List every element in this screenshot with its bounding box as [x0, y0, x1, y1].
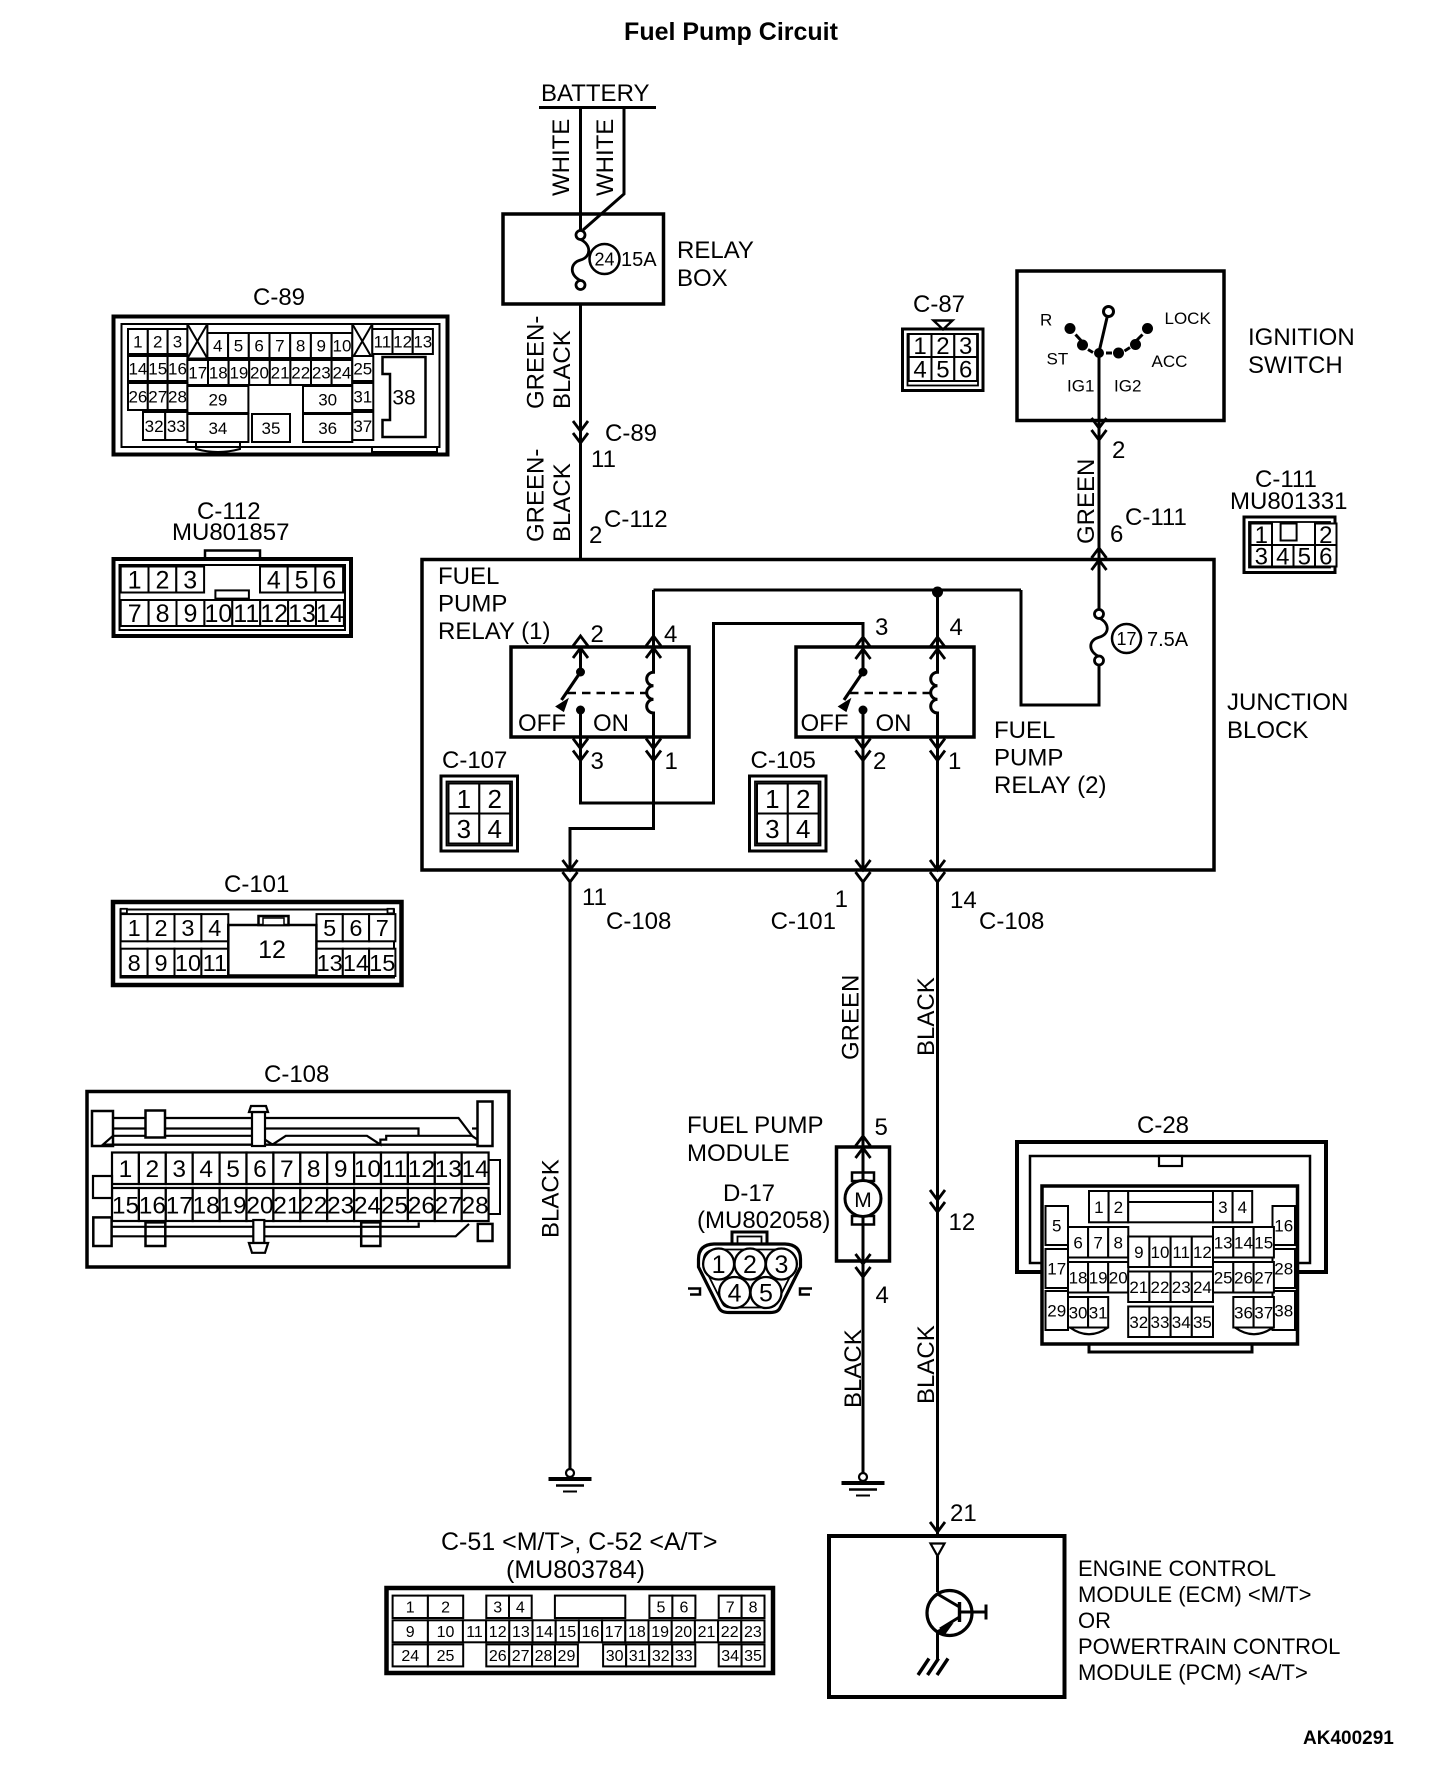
- svg-text:6: 6: [254, 337, 263, 356]
- svg-text:C-107: C-107: [442, 747, 507, 774]
- svg-text:4: 4: [213, 337, 222, 356]
- svg-text:MU801331: MU801331: [1230, 488, 1347, 515]
- svg-text:13: 13: [512, 1624, 530, 1641]
- svg-text:10: 10: [1151, 1243, 1170, 1262]
- svg-text:18: 18: [1069, 1268, 1088, 1287]
- svg-text:21: 21: [698, 1624, 716, 1641]
- svg-text:(MU802058): (MU802058): [697, 1207, 830, 1234]
- svg-text:12: 12: [949, 1209, 976, 1236]
- svg-text:BLACK: BLACK: [913, 977, 940, 1056]
- svg-text:1: 1: [133, 333, 142, 352]
- svg-text:1: 1: [712, 1251, 726, 1279]
- svg-text:1: 1: [128, 915, 141, 941]
- svg-text:31: 31: [1089, 1303, 1108, 1322]
- svg-text:8: 8: [749, 1600, 758, 1617]
- svg-text:2: 2: [155, 915, 168, 941]
- svg-text:C-108: C-108: [979, 908, 1044, 935]
- svg-text:17: 17: [166, 1192, 193, 1219]
- svg-text:5: 5: [234, 337, 243, 356]
- svg-text:22: 22: [721, 1624, 739, 1641]
- svg-text:5: 5: [1052, 1217, 1061, 1236]
- svg-text:34: 34: [1172, 1313, 1191, 1332]
- svg-text:RELAY: RELAY: [677, 237, 754, 264]
- svg-text:32: 32: [1129, 1313, 1148, 1332]
- svg-text:28: 28: [168, 388, 187, 407]
- svg-text:34: 34: [721, 1648, 739, 1665]
- svg-text:14: 14: [128, 360, 147, 379]
- svg-text:7: 7: [128, 600, 142, 628]
- svg-text:11: 11: [233, 600, 259, 628]
- svg-text:22: 22: [291, 364, 310, 383]
- svg-text:16: 16: [168, 360, 187, 379]
- svg-text:2: 2: [796, 784, 810, 814]
- svg-text:27: 27: [435, 1192, 462, 1219]
- svg-text:38: 38: [1274, 1302, 1293, 1321]
- svg-text:38: 38: [392, 387, 415, 410]
- svg-text:11: 11: [203, 950, 227, 976]
- svg-text:IG2: IG2: [1114, 377, 1141, 396]
- svg-text:22: 22: [300, 1192, 327, 1219]
- svg-text:2: 2: [1112, 437, 1125, 464]
- svg-text:7.5A: 7.5A: [1147, 629, 1189, 651]
- svg-text:15A: 15A: [621, 249, 657, 271]
- svg-text:WHITE: WHITE: [548, 119, 575, 196]
- svg-text:12: 12: [489, 1624, 507, 1641]
- svg-text:1: 1: [406, 1600, 415, 1617]
- svg-text:19: 19: [651, 1624, 669, 1641]
- svg-text:FUEL PUMP: FUEL PUMP: [687, 1112, 823, 1139]
- svg-text:Fuel Pump Circuit: Fuel Pump Circuit: [624, 18, 839, 46]
- svg-text:33: 33: [675, 1648, 693, 1665]
- svg-text:4: 4: [516, 1600, 525, 1617]
- svg-text:C-111: C-111: [1125, 504, 1187, 531]
- svg-text:6: 6: [253, 1156, 267, 1183]
- svg-text:C-101: C-101: [224, 871, 289, 898]
- svg-text:35: 35: [1193, 1313, 1212, 1332]
- svg-text:C-89: C-89: [253, 284, 305, 311]
- svg-text:21: 21: [1129, 1278, 1148, 1297]
- svg-text:4: 4: [1238, 1198, 1247, 1217]
- svg-text:C-108: C-108: [606, 908, 671, 935]
- svg-text:2: 2: [487, 784, 501, 814]
- svg-text:4: 4: [1276, 543, 1289, 570]
- svg-text:37: 37: [353, 417, 372, 436]
- svg-text:11: 11: [382, 1156, 407, 1183]
- svg-text:1: 1: [835, 886, 848, 913]
- svg-text:1: 1: [665, 748, 678, 775]
- svg-text:C-105: C-105: [751, 747, 816, 774]
- svg-text:22: 22: [1151, 1278, 1170, 1297]
- svg-text:24: 24: [354, 1192, 381, 1219]
- svg-text:C-89: C-89: [605, 420, 657, 447]
- svg-text:BLACK: BLACK: [840, 1329, 867, 1408]
- svg-text:6: 6: [322, 567, 336, 595]
- svg-text:35: 35: [744, 1648, 762, 1665]
- svg-text:2: 2: [155, 567, 169, 595]
- svg-text:13: 13: [288, 600, 316, 628]
- svg-text:17: 17: [188, 364, 207, 383]
- svg-text:20: 20: [674, 1624, 692, 1641]
- svg-text:4: 4: [208, 915, 221, 941]
- svg-text:25: 25: [381, 1192, 408, 1219]
- svg-text:20: 20: [246, 1192, 273, 1219]
- svg-text:C-87: C-87: [913, 291, 965, 318]
- svg-text:23: 23: [327, 1192, 354, 1219]
- svg-text:23: 23: [312, 364, 331, 383]
- svg-text:2: 2: [873, 748, 886, 775]
- svg-text:OR: OR: [1078, 1608, 1111, 1633]
- svg-text:ENGINE CONTROL: ENGINE CONTROL: [1078, 1556, 1276, 1581]
- svg-text:BLOCK: BLOCK: [1227, 717, 1308, 744]
- svg-text:ST: ST: [1047, 350, 1069, 369]
- svg-text:8: 8: [156, 600, 170, 628]
- svg-text:9: 9: [155, 950, 168, 976]
- svg-text:6: 6: [1110, 521, 1123, 548]
- svg-text:7: 7: [376, 915, 389, 941]
- svg-text:GREEN-: GREEN-: [523, 316, 550, 409]
- svg-text:C-28: C-28: [1137, 1112, 1189, 1139]
- svg-text:29: 29: [208, 391, 227, 410]
- svg-text:13: 13: [317, 950, 343, 976]
- svg-text:2: 2: [591, 621, 604, 648]
- svg-text:GREEN: GREEN: [1073, 459, 1100, 544]
- svg-text:AK400291: AK400291: [1303, 1728, 1394, 1749]
- svg-text:10: 10: [354, 1156, 381, 1183]
- svg-text:9: 9: [1134, 1243, 1143, 1262]
- svg-text:16: 16: [139, 1192, 166, 1219]
- svg-text:4: 4: [796, 814, 810, 844]
- svg-text:20: 20: [250, 364, 269, 383]
- svg-text:4: 4: [267, 567, 281, 595]
- svg-text:27: 27: [512, 1648, 530, 1665]
- svg-text:PUMP: PUMP: [438, 591, 507, 618]
- svg-text:9: 9: [406, 1624, 415, 1641]
- svg-text:34: 34: [208, 419, 227, 438]
- svg-text:17: 17: [605, 1624, 623, 1641]
- svg-text:8: 8: [296, 337, 305, 356]
- svg-text:GREEN-: GREEN-: [523, 449, 550, 542]
- svg-text:FUEL: FUEL: [438, 563, 499, 590]
- svg-text:3: 3: [1255, 543, 1268, 570]
- svg-text:36: 36: [1234, 1303, 1253, 1322]
- svg-text:19: 19: [1089, 1268, 1108, 1287]
- svg-text:30: 30: [1069, 1303, 1088, 1322]
- svg-text:33: 33: [167, 417, 186, 436]
- svg-text:3: 3: [181, 915, 194, 941]
- svg-text:23: 23: [1172, 1278, 1191, 1297]
- svg-text:21: 21: [273, 1192, 300, 1219]
- svg-text:17: 17: [1116, 629, 1136, 649]
- svg-text:16: 16: [582, 1624, 600, 1641]
- svg-text:3: 3: [457, 814, 471, 844]
- svg-text:37: 37: [1254, 1303, 1273, 1322]
- svg-text:15: 15: [558, 1624, 576, 1641]
- svg-text:3: 3: [765, 814, 779, 844]
- svg-text:25: 25: [437, 1648, 455, 1665]
- svg-text:16: 16: [1274, 1217, 1293, 1236]
- svg-text:ON: ON: [593, 710, 629, 737]
- svg-text:3: 3: [173, 333, 182, 352]
- svg-text:36: 36: [318, 419, 337, 438]
- svg-text:15: 15: [1254, 1233, 1273, 1252]
- svg-text:WHITE: WHITE: [592, 119, 619, 196]
- svg-text:24: 24: [1193, 1278, 1212, 1297]
- svg-text:6: 6: [349, 915, 362, 941]
- svg-text:9: 9: [317, 337, 326, 356]
- svg-text:4: 4: [876, 1282, 889, 1309]
- svg-text:BOX: BOX: [677, 265, 728, 292]
- svg-text:ON: ON: [876, 710, 912, 737]
- svg-text:14: 14: [316, 600, 344, 628]
- svg-text:11: 11: [1172, 1243, 1190, 1262]
- svg-text:28: 28: [1274, 1260, 1293, 1279]
- svg-text:FUEL: FUEL: [994, 717, 1055, 744]
- svg-text:18: 18: [193, 1192, 220, 1219]
- svg-text:3: 3: [1218, 1198, 1227, 1217]
- svg-text:29: 29: [558, 1648, 576, 1665]
- svg-text:6: 6: [959, 357, 972, 384]
- svg-text:26: 26: [408, 1192, 435, 1219]
- svg-text:4: 4: [913, 357, 926, 384]
- svg-text:MU801857: MU801857: [172, 519, 289, 546]
- svg-text:14: 14: [343, 950, 369, 976]
- svg-text:28: 28: [535, 1648, 553, 1665]
- svg-text:OFF: OFF: [801, 710, 849, 737]
- svg-text:7: 7: [275, 337, 284, 356]
- svg-text:6: 6: [1073, 1233, 1082, 1252]
- svg-text:1: 1: [457, 784, 471, 814]
- svg-text:MODULE (ECM) <M/T>: MODULE (ECM) <M/T>: [1078, 1582, 1311, 1607]
- svg-text:4: 4: [487, 814, 501, 844]
- svg-text:LOCK: LOCK: [1165, 309, 1212, 328]
- svg-text:RELAY (2): RELAY (2): [994, 772, 1107, 799]
- svg-text:BATTERY: BATTERY: [541, 80, 649, 107]
- svg-text:2: 2: [1114, 1198, 1123, 1217]
- svg-text:18: 18: [628, 1624, 646, 1641]
- svg-text:8: 8: [1114, 1233, 1123, 1252]
- svg-text:11: 11: [582, 884, 607, 911]
- svg-text:25: 25: [1214, 1268, 1233, 1287]
- svg-text:JUNCTION: JUNCTION: [1227, 689, 1348, 716]
- svg-text:4: 4: [728, 1279, 742, 1307]
- svg-text:31: 31: [353, 388, 372, 407]
- svg-text:5: 5: [875, 1114, 888, 1141]
- svg-text:23: 23: [744, 1624, 762, 1641]
- svg-text:D-17: D-17: [723, 1180, 775, 1207]
- svg-text:3: 3: [591, 748, 604, 775]
- svg-text:9: 9: [334, 1156, 348, 1183]
- svg-text:28: 28: [462, 1192, 489, 1219]
- svg-text:M: M: [854, 1189, 872, 1212]
- svg-text:IG1: IG1: [1067, 377, 1094, 396]
- svg-text:5: 5: [656, 1600, 665, 1617]
- svg-text:14: 14: [950, 887, 977, 914]
- svg-text:13: 13: [413, 333, 432, 352]
- svg-text:GREEN: GREEN: [838, 975, 865, 1060]
- svg-text:2: 2: [146, 1156, 160, 1183]
- svg-text:11: 11: [466, 1624, 483, 1641]
- svg-text:C-112: C-112: [604, 506, 668, 533]
- svg-text:1: 1: [765, 784, 779, 814]
- svg-text:8: 8: [128, 950, 141, 976]
- svg-text:21: 21: [271, 364, 290, 383]
- svg-text:13: 13: [435, 1156, 462, 1183]
- svg-text:10: 10: [175, 950, 201, 976]
- svg-text:BLACK: BLACK: [549, 330, 576, 409]
- svg-text:R: R: [1040, 311, 1052, 330]
- svg-text:15: 15: [148, 360, 167, 379]
- svg-text:4: 4: [664, 621, 677, 648]
- svg-text:12: 12: [393, 333, 412, 352]
- svg-text:7: 7: [726, 1600, 735, 1617]
- svg-text:33: 33: [1151, 1313, 1170, 1332]
- svg-text:14: 14: [535, 1624, 553, 1641]
- svg-text:7: 7: [1093, 1233, 1102, 1252]
- svg-text:24: 24: [594, 250, 614, 270]
- svg-text:4: 4: [199, 1156, 213, 1183]
- svg-text:3: 3: [172, 1156, 186, 1183]
- svg-text:30: 30: [318, 391, 337, 410]
- svg-text:24: 24: [401, 1648, 419, 1665]
- svg-text:C-108: C-108: [264, 1061, 329, 1088]
- svg-text:19: 19: [219, 1192, 246, 1219]
- svg-text:12: 12: [1193, 1243, 1212, 1262]
- svg-text:26: 26: [1234, 1268, 1253, 1287]
- svg-text:32: 32: [145, 417, 164, 436]
- svg-text:27: 27: [148, 388, 167, 407]
- svg-text:4: 4: [950, 614, 963, 641]
- svg-text:2: 2: [743, 1251, 757, 1279]
- svg-text:2: 2: [153, 333, 162, 352]
- svg-text:35: 35: [262, 419, 281, 438]
- svg-text:13: 13: [1214, 1233, 1233, 1252]
- svg-text:26: 26: [489, 1648, 507, 1665]
- svg-text:2: 2: [441, 1600, 450, 1617]
- svg-text:5: 5: [1298, 543, 1311, 570]
- svg-text:29: 29: [1047, 1302, 1066, 1321]
- svg-text:21: 21: [950, 1500, 977, 1527]
- svg-text:10: 10: [204, 600, 232, 628]
- svg-text:3: 3: [774, 1251, 788, 1279]
- svg-text:25: 25: [353, 360, 372, 379]
- svg-text:1: 1: [128, 567, 142, 595]
- svg-text:26: 26: [128, 388, 147, 407]
- svg-text:5: 5: [323, 915, 336, 941]
- svg-text:MODULE: MODULE: [687, 1140, 790, 1167]
- svg-text:PUMP: PUMP: [994, 745, 1063, 772]
- svg-text:12: 12: [258, 936, 286, 964]
- svg-text:32: 32: [652, 1648, 670, 1665]
- svg-text:15: 15: [369, 950, 395, 976]
- svg-text:8: 8: [307, 1156, 321, 1183]
- svg-text:19: 19: [229, 364, 248, 383]
- svg-text:6: 6: [679, 1600, 688, 1617]
- svg-text:14: 14: [1234, 1233, 1253, 1252]
- svg-text:20: 20: [1109, 1268, 1128, 1287]
- svg-text:5: 5: [295, 567, 309, 595]
- svg-text:POWERTRAIN CONTROL: POWERTRAIN CONTROL: [1078, 1634, 1340, 1659]
- svg-text:17: 17: [1047, 1260, 1066, 1279]
- svg-text:10: 10: [332, 337, 351, 356]
- svg-text:11: 11: [374, 333, 392, 352]
- svg-text:BLACK: BLACK: [549, 463, 576, 542]
- svg-text:27: 27: [1254, 1268, 1273, 1287]
- svg-text:SWITCH: SWITCH: [1248, 352, 1343, 379]
- svg-text:10: 10: [437, 1624, 455, 1641]
- svg-text:7: 7: [280, 1156, 294, 1183]
- svg-text:2: 2: [589, 522, 602, 549]
- svg-text:OFF: OFF: [518, 710, 566, 737]
- svg-text:C-101: C-101: [771, 908, 836, 935]
- svg-text:24: 24: [332, 364, 351, 383]
- svg-text:9: 9: [183, 600, 197, 628]
- svg-text:5: 5: [226, 1156, 240, 1183]
- svg-text:BLACK: BLACK: [913, 1325, 940, 1404]
- svg-text:31: 31: [629, 1648, 647, 1665]
- svg-text:5: 5: [759, 1279, 773, 1307]
- svg-text:6: 6: [1319, 543, 1332, 570]
- svg-text:3: 3: [493, 1600, 502, 1617]
- svg-text:ACC: ACC: [1152, 352, 1188, 371]
- svg-text:IGNITION: IGNITION: [1248, 324, 1355, 351]
- svg-text:12: 12: [408, 1156, 435, 1183]
- svg-text:RELAY (1): RELAY (1): [438, 618, 551, 645]
- svg-text:11: 11: [591, 446, 616, 473]
- svg-text:5: 5: [936, 357, 949, 384]
- svg-text:14: 14: [462, 1156, 489, 1183]
- svg-text:(MU803784): (MU803784): [506, 1556, 645, 1584]
- svg-text:3: 3: [875, 614, 888, 641]
- svg-text:18: 18: [209, 364, 228, 383]
- svg-text:15: 15: [112, 1192, 139, 1219]
- svg-text:1: 1: [1094, 1198, 1103, 1217]
- svg-text:3: 3: [183, 567, 197, 595]
- svg-text:1: 1: [119, 1156, 133, 1183]
- svg-text:30: 30: [606, 1648, 624, 1665]
- svg-text:MODULE (PCM) <A/T>: MODULE (PCM) <A/T>: [1078, 1660, 1308, 1685]
- svg-text:BLACK: BLACK: [538, 1159, 565, 1238]
- svg-text:1: 1: [948, 748, 961, 775]
- svg-text:12: 12: [260, 600, 288, 628]
- svg-text:C-51 <M/T>, C-52 <A/T>: C-51 <M/T>, C-52 <A/T>: [441, 1528, 718, 1556]
